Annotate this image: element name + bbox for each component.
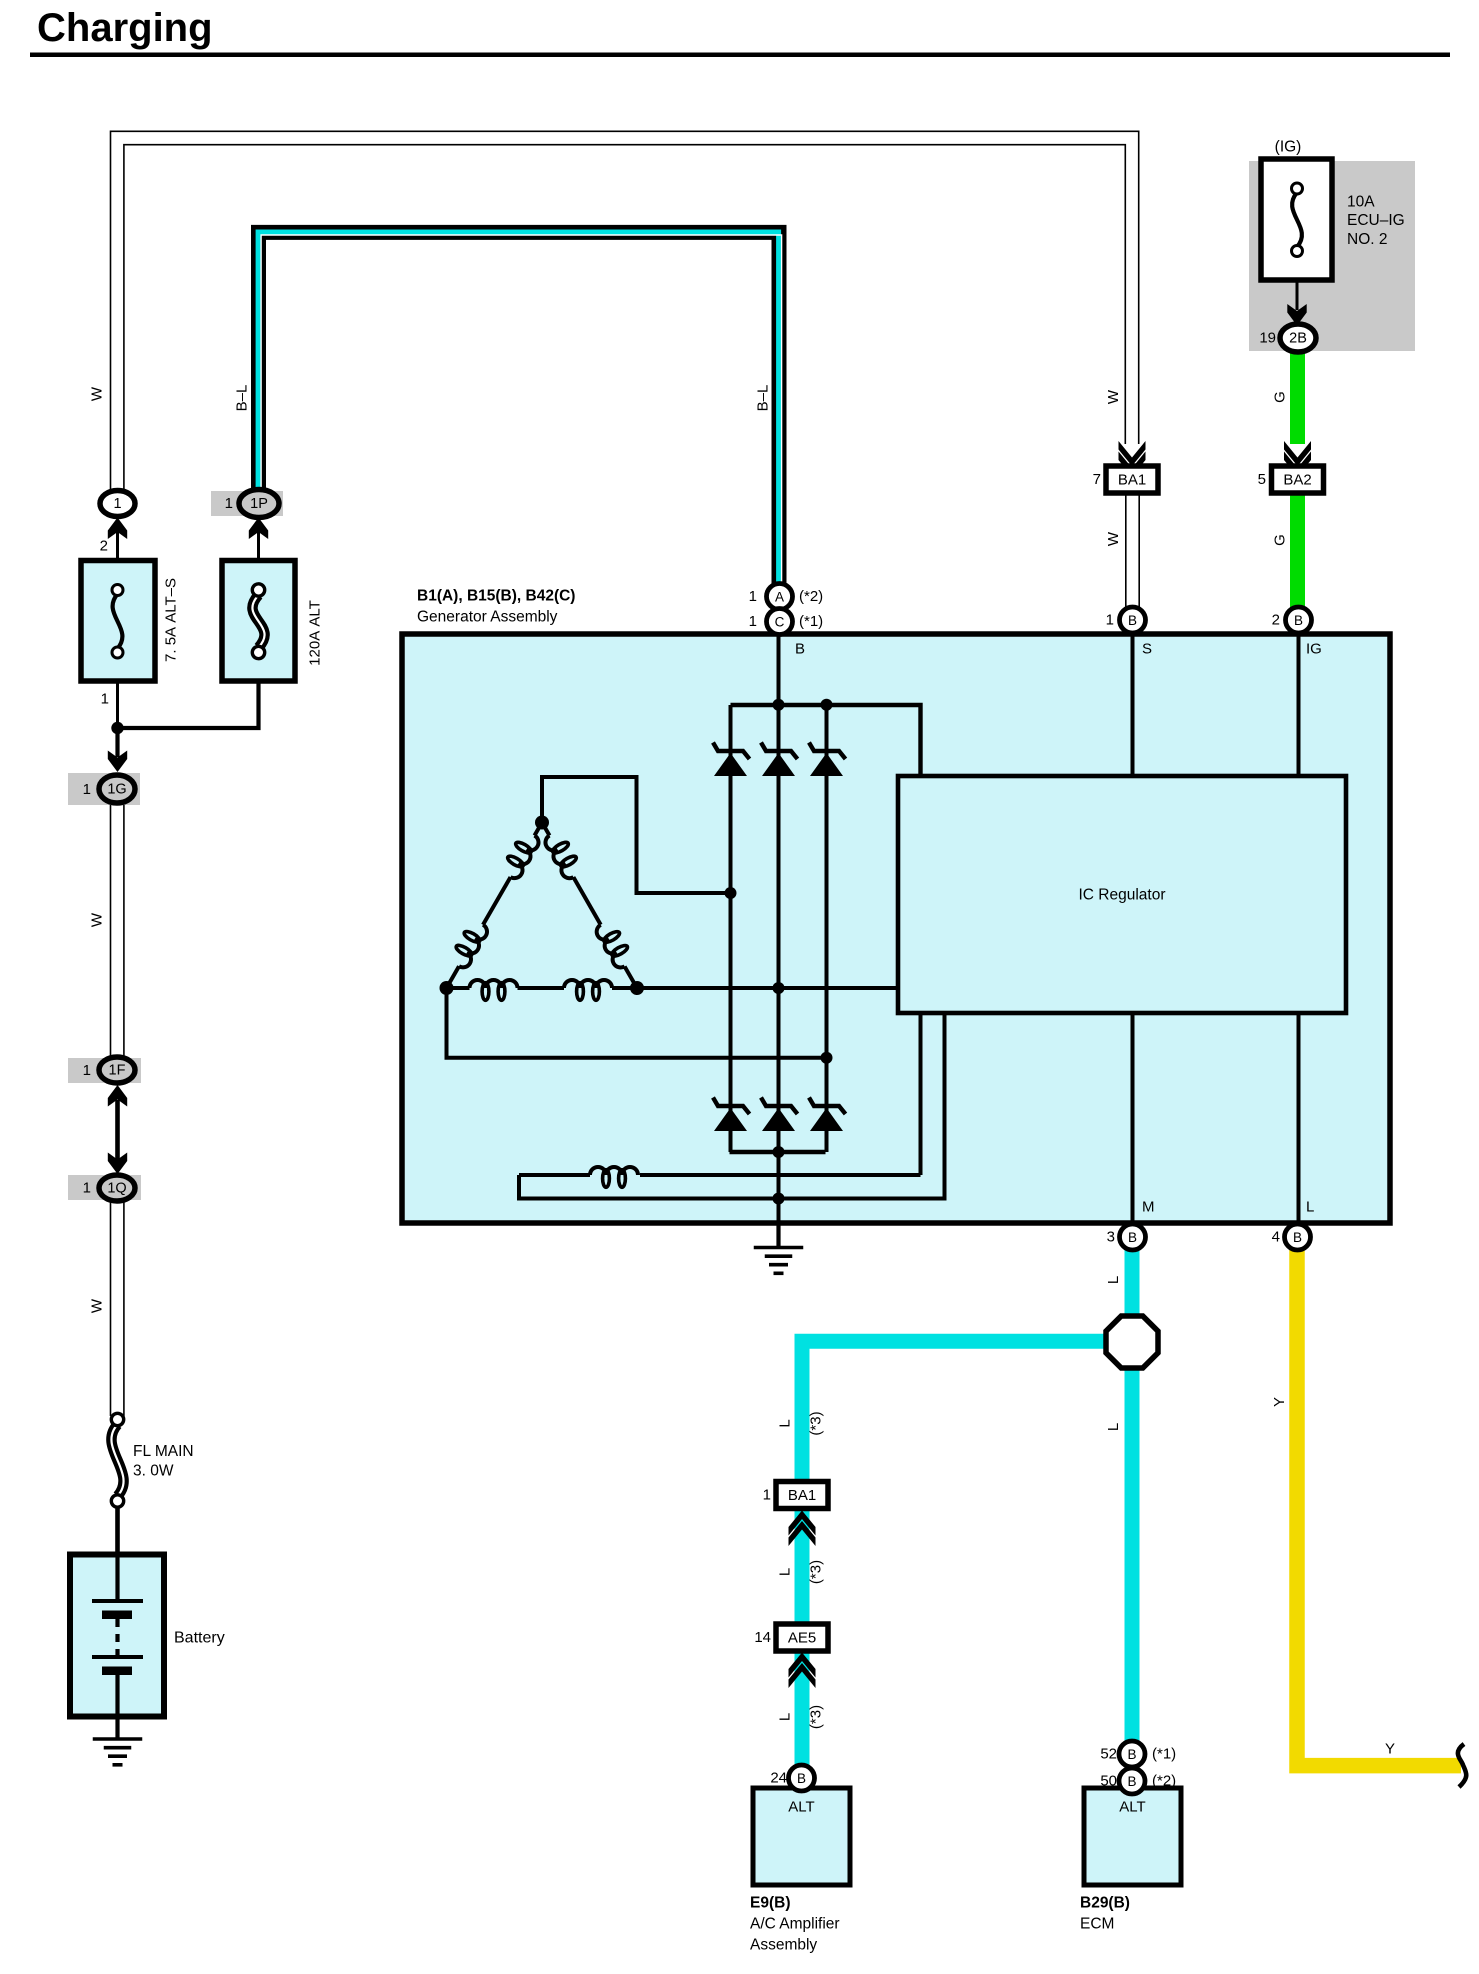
svg-text:ECU–IG: ECU–IG xyxy=(1347,212,1405,229)
svg-text:5: 5 xyxy=(1258,471,1266,488)
svg-text:B–L: B–L xyxy=(234,385,251,412)
svg-text:120A ALT: 120A ALT xyxy=(307,600,324,666)
wire 1F to 1Q xyxy=(115,1100,120,1160)
svg-text:B: B xyxy=(1128,613,1137,628)
svg-text:W: W xyxy=(89,386,106,401)
svg-text:Charging: Charging xyxy=(37,6,213,50)
svg-text:B–L: B–L xyxy=(755,385,772,412)
wire W (connector 1Q to fusible link FL MAIN) xyxy=(110,1199,125,1416)
svg-text:(*1): (*1) xyxy=(799,613,823,630)
svg-text:Y: Y xyxy=(1385,1741,1395,1758)
svg-text:M: M xyxy=(1142,1199,1155,1216)
svg-text:Battery: Battery xyxy=(174,1630,225,1647)
generator assembly box B1(A),B15(B),B42(C) xyxy=(402,634,1390,1223)
diode D5 (bottom col2) xyxy=(762,1108,795,1131)
connector node 1 xyxy=(100,491,135,517)
junction dot delta bottom-left vertex xyxy=(440,981,454,995)
field coil circuit xyxy=(919,1013,923,1175)
svg-text:FL MAIN: FL MAIN xyxy=(133,1443,194,1460)
ground (battery) xyxy=(93,1737,143,1741)
wire L (generator M terminal to junction octagon) xyxy=(1125,1250,1140,1318)
diode D1 (top col1) xyxy=(714,753,747,776)
svg-text:2B: 2B xyxy=(1289,331,1307,347)
svg-text:1Q: 1Q xyxy=(107,1181,126,1197)
svg-text:ALT: ALT xyxy=(1119,1799,1145,1816)
arrows into connector BA2 xyxy=(1284,441,1311,466)
svg-text:3. 0W: 3. 0W xyxy=(133,1463,174,1480)
continuation squiggle (Y wire) xyxy=(1458,1744,1466,1787)
svg-text:B: B xyxy=(1127,1747,1136,1762)
svg-text:1P: 1P xyxy=(250,496,268,512)
svg-text:7: 7 xyxy=(1093,471,1101,488)
connector 1Q xyxy=(68,1175,141,1200)
svg-text:W: W xyxy=(1105,531,1122,546)
wire junction fuse outputs xyxy=(118,681,259,728)
junction dot col3 xyxy=(821,1052,833,1064)
svg-text:1: 1 xyxy=(225,495,233,512)
svg-text:3: 3 xyxy=(1107,1229,1115,1246)
svg-text:1: 1 xyxy=(83,781,91,798)
fuse 7.5A ALT-S xyxy=(81,561,155,682)
wire terminal B into rectifier xyxy=(777,630,781,1225)
svg-text:B: B xyxy=(797,1771,806,1786)
svg-text:W: W xyxy=(89,912,106,927)
battery xyxy=(70,1555,164,1717)
svg-text:1: 1 xyxy=(749,588,757,605)
svg-text:(*3): (*3) xyxy=(808,1411,825,1435)
field coil xyxy=(590,1167,638,1187)
svg-text:24: 24 xyxy=(770,1770,787,1787)
svg-text:1: 1 xyxy=(83,1180,91,1197)
rectifier negative bus xyxy=(730,1150,826,1154)
svg-text:L: L xyxy=(1306,1199,1314,1216)
wire B-L (connector 1P over top to generator B terminal A) xyxy=(259,232,780,587)
arrow into connector 1P xyxy=(249,518,268,540)
svg-text:BA2: BA2 xyxy=(1283,472,1311,489)
svg-text:W: W xyxy=(1105,389,1122,404)
stator winding delta bottom side xyxy=(447,986,470,990)
ground (generator) xyxy=(776,1225,780,1248)
rectifier positive bus xyxy=(731,705,921,776)
wire terminal S to IC regulator xyxy=(1131,630,1135,776)
fuse 10A ECU-IG NO.2 xyxy=(1261,159,1332,280)
diode D6 (bottom col3) xyxy=(810,1108,843,1131)
ECM box B29(B) xyxy=(1084,1788,1181,1885)
junction dot B/delta bottom xyxy=(773,982,785,994)
svg-text:G: G xyxy=(1272,534,1289,546)
wire IC regulator to terminal M xyxy=(1131,1013,1135,1225)
svg-text:A/C Amplifier: A/C Amplifier xyxy=(750,1916,840,1933)
svg-text:BA1: BA1 xyxy=(1118,472,1146,489)
svg-text:2: 2 xyxy=(100,538,108,555)
svg-text:L: L xyxy=(1105,1423,1122,1431)
junction dot bus/B xyxy=(773,699,785,711)
arrows into connector BA1 xyxy=(1119,441,1146,466)
svg-text:Assembly: Assembly xyxy=(750,1937,817,1954)
svg-text:1: 1 xyxy=(763,1487,771,1504)
svg-text:Y: Y xyxy=(1271,1397,1288,1407)
wire L (junction octagon left branch to connector BA1) xyxy=(802,1341,1107,1482)
svg-text:52: 52 xyxy=(1100,1746,1117,1763)
svg-text:S: S xyxy=(1142,641,1152,658)
svg-text:(*3): (*3) xyxy=(808,1560,825,1584)
svg-text:ALT: ALT xyxy=(788,1799,814,1816)
wire Y (generator L terminal to edge continuation) xyxy=(1297,1250,1461,1766)
svg-text:B1(A), B15(B), B42(C): B1(A), B15(B), B42(C) xyxy=(417,588,575,605)
svg-text:4: 4 xyxy=(1272,1229,1280,1246)
svg-text:(*3): (*3) xyxy=(808,1705,825,1729)
wire delta top vertex to rectifier col1 xyxy=(542,777,731,893)
IC Regulator xyxy=(898,776,1346,1013)
wire L (BA1 to AE5) xyxy=(795,1508,810,1625)
svg-text:L: L xyxy=(777,1568,794,1576)
svg-text:19: 19 xyxy=(1259,330,1276,347)
svg-text:B29(B): B29(B) xyxy=(1080,1895,1130,1912)
svg-text:B: B xyxy=(1294,613,1303,628)
svg-text:B: B xyxy=(1293,1230,1302,1245)
svg-text:50: 50 xyxy=(1100,1773,1117,1790)
wire G (connector 2B to BA2) xyxy=(1290,350,1305,444)
stator winding delta right side xyxy=(542,823,550,836)
svg-text:(IG): (IG) xyxy=(1275,139,1302,156)
svg-text:1: 1 xyxy=(749,613,757,630)
diode D2 (top col2) xyxy=(762,753,795,776)
svg-text:10A: 10A xyxy=(1347,194,1375,211)
arrow into connector 1F xyxy=(108,1085,127,1107)
svg-text:14: 14 xyxy=(754,1629,771,1646)
svg-text:1: 1 xyxy=(1106,612,1114,629)
arrow into connector 2B xyxy=(1287,304,1306,326)
arrows into BA1 (bottom) xyxy=(789,1511,816,1536)
junction dot bus/col3 xyxy=(821,699,833,711)
arrows into AE5 xyxy=(789,1653,816,1678)
svg-text:7. 5A ALT–S: 7. 5A ALT–S xyxy=(163,578,180,662)
svg-text:AE5: AE5 xyxy=(788,1630,816,1647)
rectifier column 1 xyxy=(729,705,733,1152)
svg-text:W: W xyxy=(89,1298,106,1313)
A/C amplifier assembly box E9(B) xyxy=(753,1788,850,1885)
wire L (junction octagon down to ECM terminals) xyxy=(1125,1366,1140,1742)
connector 1P xyxy=(211,491,283,516)
svg-text:1: 1 xyxy=(113,496,121,512)
svg-text:IC Regulator: IC Regulator xyxy=(1078,887,1165,904)
svg-text:2: 2 xyxy=(1272,612,1280,629)
arrow into node 1 xyxy=(108,518,127,540)
junction block (gray) xyxy=(1249,161,1415,351)
wire W (node 1 up over top to connector BA1) xyxy=(117,138,1132,497)
wire delta bottom-left vertex to rectifier col3 xyxy=(447,988,827,1058)
fusible link FL MAIN 3.0W xyxy=(111,1425,123,1497)
connector 1F xyxy=(68,1058,141,1083)
wire W (connector 1G to 1F) xyxy=(110,800,125,1060)
rectifier column 3 xyxy=(825,705,829,1152)
wire terminal IG to IC regulator xyxy=(1297,630,1301,776)
svg-text:ECM: ECM xyxy=(1080,1916,1114,1933)
wire IC regulator to terminal L xyxy=(1297,1013,1301,1225)
svg-text:BA1: BA1 xyxy=(788,1487,816,1504)
svg-text:L: L xyxy=(1105,1276,1122,1284)
svg-text:L: L xyxy=(777,1713,794,1721)
svg-text:1: 1 xyxy=(101,691,109,708)
svg-text:B: B xyxy=(795,641,805,658)
wire G (BA2 to generator IG terminal) xyxy=(1290,492,1305,608)
junction dot delta top vertex xyxy=(535,816,549,830)
svg-text:C: C xyxy=(775,615,785,630)
connector 1G xyxy=(68,773,140,805)
svg-text:G: G xyxy=(1272,391,1289,403)
diode D4 (bottom col1) xyxy=(714,1108,747,1131)
wire W (connector BA1 to generator S terminal) xyxy=(1125,492,1140,608)
pin 1 label of fuse ALT-S xyxy=(116,681,119,728)
svg-text:L: L xyxy=(777,1419,794,1427)
svg-text:(*2): (*2) xyxy=(799,588,823,605)
svg-text:E9(B): E9(B) xyxy=(750,1895,790,1912)
fuse 120A ALT xyxy=(222,561,295,682)
svg-text:Generator Assembly: Generator Assembly xyxy=(417,609,558,626)
svg-text:NO. 2: NO. 2 xyxy=(1347,231,1387,248)
svg-text:B: B xyxy=(1128,1230,1137,1245)
svg-text:IG: IG xyxy=(1306,641,1322,658)
arrow into connector 1G xyxy=(108,751,127,773)
svg-text:A: A xyxy=(775,590,784,605)
junction dot B/field return xyxy=(773,1193,785,1205)
svg-text:1: 1 xyxy=(83,1062,91,1079)
wire FL MAIN to battery xyxy=(115,1507,120,1556)
diode D3 (top col3) xyxy=(810,753,843,776)
svg-text:(*2): (*2) xyxy=(1152,1773,1176,1790)
wire L (AE5 to A/C amplifier terminal 24) xyxy=(795,1649,810,1766)
junction connector J/C (octagon) xyxy=(1106,1316,1158,1368)
svg-text:(*1): (*1) xyxy=(1152,1746,1176,1763)
junction dot col1 xyxy=(725,887,737,899)
stator winding delta left side xyxy=(535,823,543,836)
svg-text:1G: 1G xyxy=(107,782,126,798)
junction dot negative bus/B xyxy=(773,1146,785,1158)
svg-text:B: B xyxy=(1127,1774,1136,1789)
arrow into connector 1Q xyxy=(108,1153,127,1175)
wire delta bottom side to IC regulator xyxy=(637,986,898,990)
svg-text:1F: 1F xyxy=(109,1063,126,1079)
junction dot delta bottom-right vertex xyxy=(630,981,644,995)
